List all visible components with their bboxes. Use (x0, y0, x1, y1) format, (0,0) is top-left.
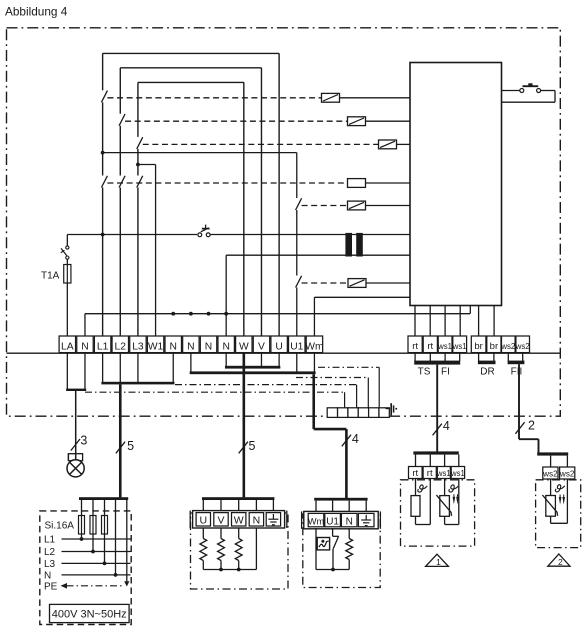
svg-text:Si.16A: Si.16A (45, 521, 75, 532)
svg-text:N: N (170, 342, 177, 353)
svg-text:ws1: ws1 (436, 469, 451, 478)
svg-text:W: W (234, 515, 244, 527)
svg-text:ws1: ws1 (437, 342, 452, 351)
svg-text:V: V (258, 342, 265, 353)
svg-text:Abbildung 4: Abbildung 4 (5, 4, 68, 18)
svg-text:L2: L2 (44, 547, 56, 558)
svg-text:3: 3 (80, 434, 87, 448)
svg-text:FII: FII (511, 367, 523, 378)
svg-text:U1: U1 (326, 516, 339, 527)
svg-text:W: W (239, 342, 249, 353)
svg-text:TS: TS (418, 367, 431, 378)
svg-text:ws2: ws2 (515, 342, 530, 351)
svg-text:Wm: Wm (305, 342, 323, 353)
svg-text:N: N (346, 516, 353, 527)
svg-text:4: 4 (352, 432, 359, 446)
svg-text:PE: PE (44, 581, 58, 592)
svg-text:N: N (187, 342, 194, 353)
svg-text:rt: rt (427, 468, 433, 479)
svg-text:ws2: ws2 (500, 342, 515, 351)
svg-text:5: 5 (249, 439, 256, 453)
svg-text:L3: L3 (132, 342, 144, 353)
svg-text:L3: L3 (44, 559, 56, 570)
svg-text:ws1: ws1 (450, 469, 465, 478)
svg-text:400V 3N~50Hz: 400V 3N~50Hz (52, 609, 127, 621)
svg-text:N: N (44, 570, 51, 581)
svg-text:V: V (217, 515, 224, 527)
svg-text:U: U (275, 342, 282, 353)
svg-text:ws1: ws1 (452, 342, 467, 351)
svg-text:N: N (205, 342, 212, 353)
svg-text:1: 1 (436, 557, 441, 567)
svg-text:rt: rt (427, 341, 433, 352)
svg-text:N: N (222, 342, 229, 353)
svg-text:2: 2 (558, 557, 563, 567)
svg-text:LA: LA (61, 342, 74, 353)
svg-text:Wm: Wm (308, 516, 325, 526)
svg-text:W1: W1 (148, 342, 164, 353)
svg-text:N: N (81, 342, 88, 353)
svg-text:N: N (253, 515, 261, 527)
svg-text:2: 2 (528, 419, 535, 433)
svg-text:4: 4 (443, 419, 450, 433)
svg-text:U: U (200, 515, 208, 527)
svg-text:ws2: ws2 (542, 470, 558, 479)
svg-text:rt: rt (412, 468, 418, 479)
svg-text:DR: DR (480, 367, 494, 378)
svg-text:U1: U1 (290, 342, 303, 353)
svg-text:rt: rt (412, 341, 418, 352)
svg-text:br: br (474, 341, 482, 352)
svg-text:5: 5 (127, 439, 134, 453)
svg-text:L1: L1 (97, 342, 109, 353)
svg-text:FI: FI (441, 367, 450, 378)
svg-text:ws2: ws2 (559, 470, 575, 479)
svg-text:L2: L2 (115, 342, 127, 353)
svg-text:L1: L1 (44, 535, 56, 546)
svg-text:br: br (490, 341, 498, 352)
svg-text:T1A: T1A (41, 271, 60, 282)
